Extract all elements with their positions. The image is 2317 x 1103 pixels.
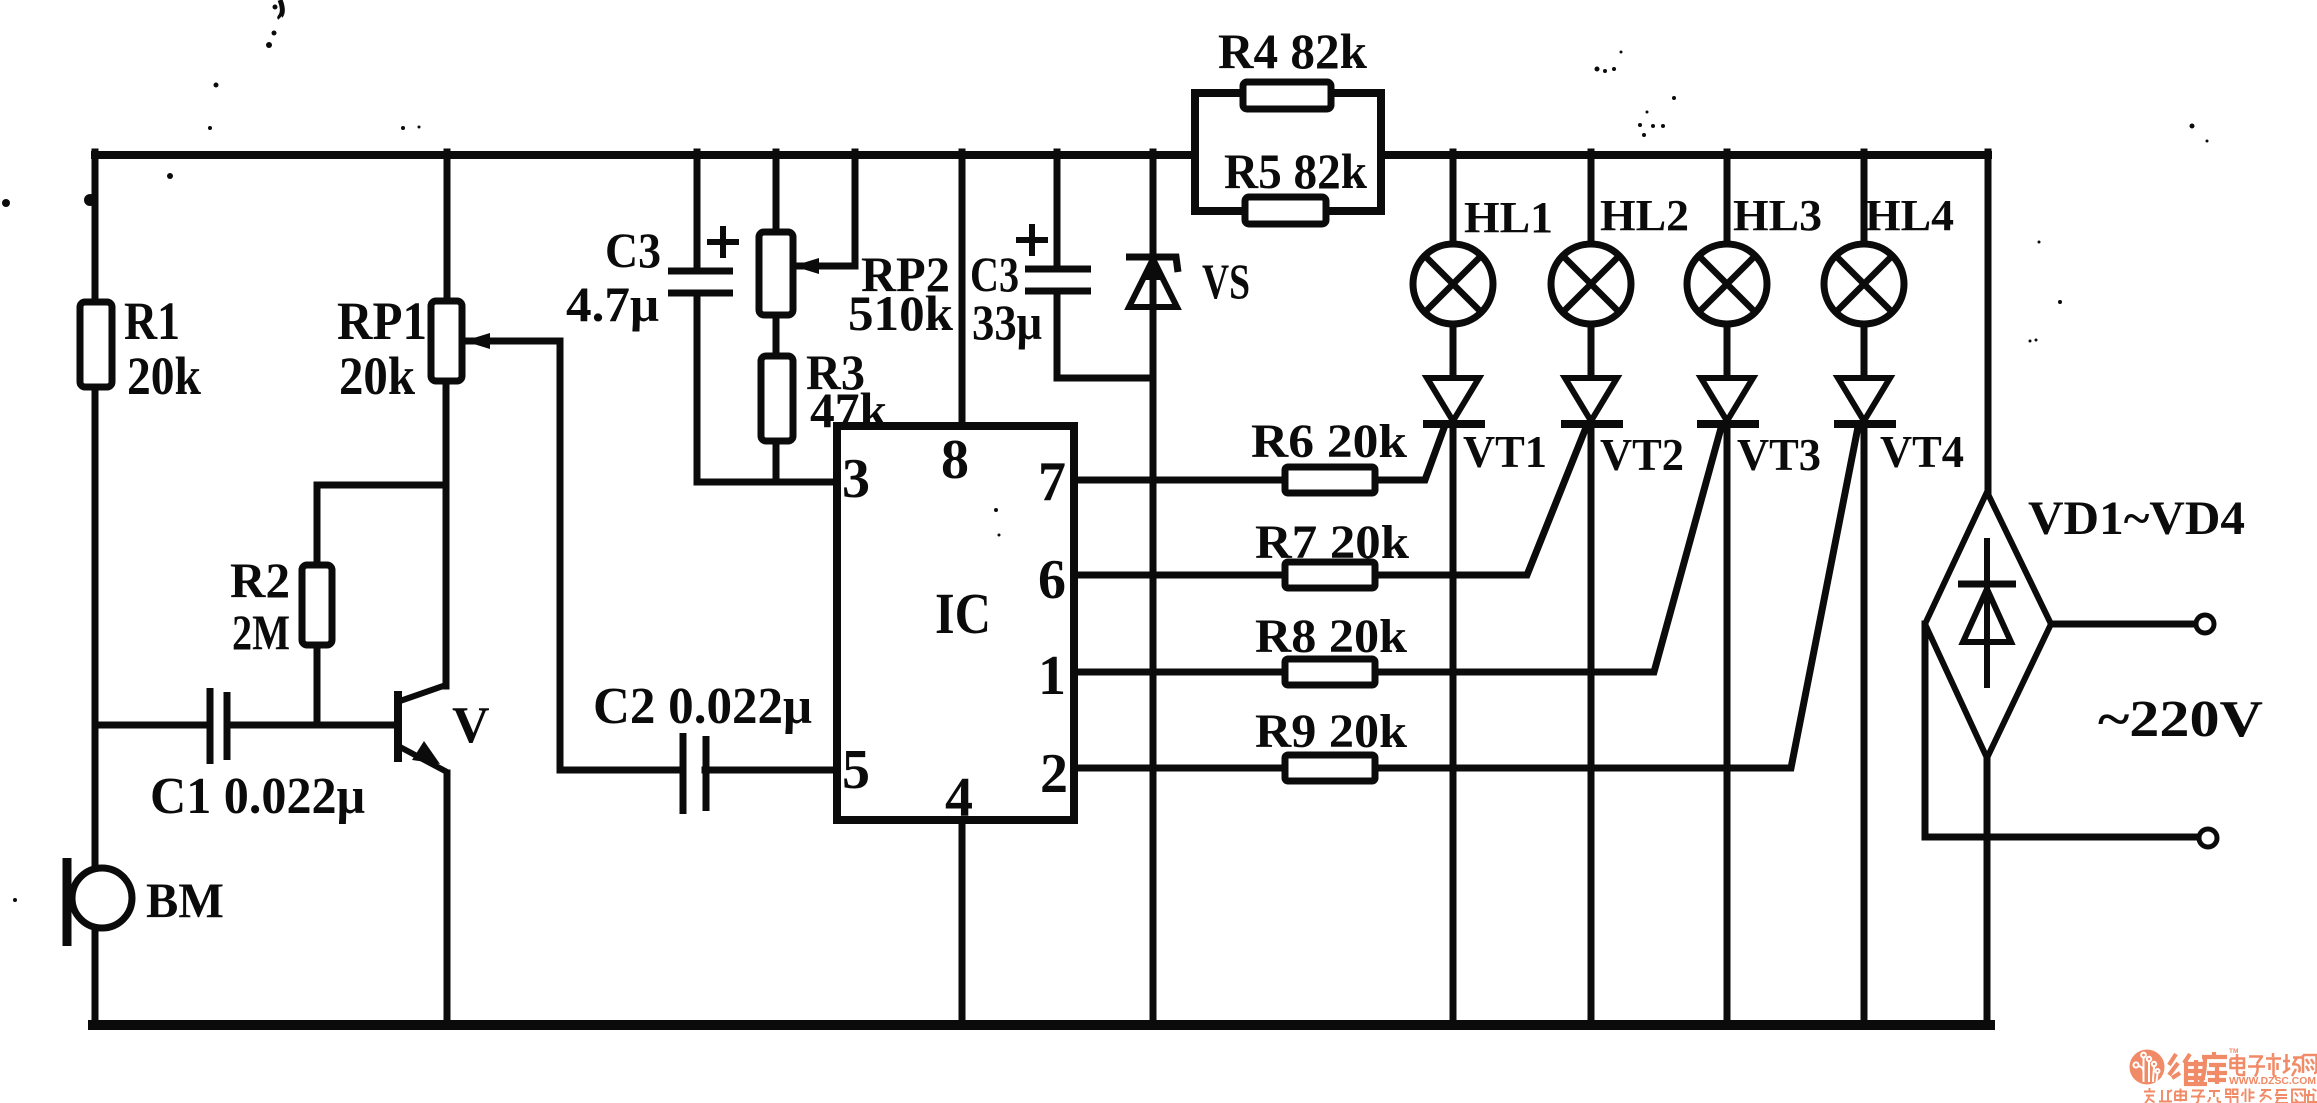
- wire lower AC lead to terminal: [1925, 834, 2199, 841]
- wire HL1 to VT1: [1450, 324, 1457, 376]
- wire VT1 cathode down: [1450, 424, 1457, 1022]
- watermark brand char ku: [2200, 1052, 2227, 1084]
- svg-text:TM: TM: [2229, 1048, 2238, 1055]
- wire RP1 wiper horizontal: [464, 338, 560, 345]
- wire BM bottom to bottom bus: [92, 928, 99, 1022]
- lamp HL1: [1413, 244, 1493, 324]
- wire RP2 to R3 link: [773, 315, 780, 356]
- thyristor VT1: [1423, 378, 1485, 424]
- svg-text:R4 82k: R4 82k: [1218, 23, 1367, 79]
- svg-text:HL1: HL1: [1464, 193, 1553, 242]
- wire IC pin 4 drop: [959, 820, 966, 1022]
- scan speck marks: [2, 0, 2209, 902]
- svg-text:3: 3: [842, 448, 870, 510]
- watermark char shi: [2266, 1053, 2281, 1077]
- wire HL2 to VT2: [1588, 324, 1595, 376]
- svg-text:R7 20k: R7 20k: [1255, 516, 1409, 569]
- svg-text:IC: IC: [935, 581, 991, 646]
- wire RP1 top feed: [444, 152, 451, 302]
- svg-text:R2: R2: [230, 552, 290, 608]
- svg-text:WWW.DZSC.COM: WWW.DZSC.COM: [2229, 1076, 2316, 1087]
- svg-text:R5 82k: R5 82k: [1224, 143, 1367, 199]
- plus sign C3a: [707, 226, 739, 258]
- watermark char dian: [2231, 1054, 2245, 1075]
- watermark char chang: [2283, 1054, 2302, 1076]
- capacitor C3b plates (33u): [1025, 269, 1091, 291]
- bridge rectifier VD1-VD4 diamond: [1925, 492, 2051, 758]
- AC terminal upper: [2196, 615, 2214, 633]
- wire IC pin 6 to R7: [1074, 572, 1285, 579]
- wire IC pin 1 to R8: [1074, 669, 1285, 676]
- wire bridge left vertex down: [1922, 624, 1929, 837]
- watermark slogan chars: [2144, 1088, 2317, 1103]
- wire C2 left horizontal: [560, 767, 682, 774]
- plus sign C3b: [1016, 224, 1048, 256]
- wire C3b bottom vertical: [1054, 291, 1061, 378]
- wire R9 to VT4 gate: [1375, 427, 1858, 768]
- watermark logo circle: [2130, 1050, 2165, 1085]
- wire C1 left (rail to C1): [95, 722, 210, 729]
- lamp HL4: [1824, 244, 1904, 324]
- svg-text:2M: 2M: [232, 604, 290, 660]
- resistor R1: [80, 302, 112, 387]
- capacitor C3a plates (4.7u): [668, 271, 733, 293]
- svg-text:~220V: ~220V: [2098, 691, 2263, 748]
- svg-text:6: 6: [1038, 549, 1066, 611]
- wire R2 top horizontal to collector line: [317, 482, 446, 489]
- wire R2 top vertical: [314, 485, 321, 565]
- R4/R5 parallel box frame: [1195, 93, 1381, 211]
- svg-text:33μ: 33μ: [972, 294, 1042, 350]
- bridge inner diode: [1958, 538, 2016, 688]
- svg-text:VT2: VT2: [1600, 429, 1684, 480]
- lamp HL3: [1687, 244, 1767, 324]
- svg-text:R1: R1: [124, 291, 180, 351]
- svg-text:4: 4: [945, 767, 973, 829]
- wire HL4 column top: [1861, 152, 1868, 244]
- svg-text:2: 2: [1040, 743, 1068, 805]
- wire HL2 column top: [1588, 152, 1595, 244]
- thyristor VT3: [1697, 378, 1759, 424]
- svg-text:VT3: VT3: [1737, 429, 1821, 480]
- svg-text:V: V: [452, 697, 490, 754]
- svg-text:47k: 47k: [810, 382, 887, 438]
- resistor R6 body: [1285, 467, 1375, 493]
- wire HL3 to VT3: [1724, 324, 1731, 376]
- wire node row to IC pin 3: [697, 479, 837, 486]
- RP2 wiper arrowhead: [793, 258, 819, 274]
- resistor R7 body: [1285, 562, 1375, 588]
- svg-text:VD1~VD4: VD1~VD4: [2028, 492, 2245, 545]
- wire C1 to transistor base: [227, 722, 398, 729]
- wire emitter vertical to bottom bus: [444, 773, 451, 1022]
- potentiometer RP1 body: [431, 301, 462, 381]
- IC box U1: [837, 426, 1074, 820]
- svg-text:VS: VS: [1202, 253, 1250, 309]
- wire C3a bottom vertical: [694, 293, 701, 482]
- watermark char zi: [2248, 1057, 2265, 1077]
- capacitor C2 plates: [683, 733, 706, 814]
- zener diode VS: [1126, 257, 1178, 307]
- svg-text:8: 8: [941, 429, 969, 491]
- svg-text:R8 20k: R8 20k: [1255, 610, 1407, 663]
- wire HL4 to VT4: [1861, 324, 1868, 376]
- svg-text:VT1: VT1: [1463, 426, 1547, 477]
- lamp HL2: [1551, 244, 1631, 324]
- resistor R4 body: [1243, 82, 1331, 109]
- AC terminal lower: [2199, 829, 2217, 847]
- wire VS rail vertical: [1150, 152, 1157, 1022]
- wire top bus left segment: [95, 151, 1195, 159]
- wire top bus right segment: [1381, 151, 1988, 159]
- svg-text:510k: 510k: [848, 285, 953, 341]
- wire IC pin 2 to R9: [1074, 765, 1285, 772]
- svg-text:HL2: HL2: [1600, 191, 1689, 240]
- microphone BM: [67, 858, 132, 946]
- wire HL1 column top: [1450, 152, 1457, 244]
- transistor V emitter arrowhead: [412, 741, 440, 764]
- svg-text:7: 7: [1038, 451, 1066, 513]
- wire VT4 cathode down: [1861, 424, 1868, 1022]
- wire RP2 wiper riser to bus: [852, 152, 859, 266]
- thyristor VT2: [1561, 378, 1623, 424]
- wire VT3 cathode down: [1724, 424, 1731, 1022]
- watermark char wang: [2303, 1055, 2317, 1073]
- wire RP1 wiper to C2 (vertical): [557, 341, 564, 770]
- wire R7 to VT2 gate: [1375, 430, 1585, 575]
- wire C3a top feed: [694, 152, 701, 271]
- svg-text:HL3: HL3: [1733, 191, 1822, 240]
- wire RP1 bottom / collector vertical: [443, 381, 450, 686]
- wire IC pin 7 to R6: [1074, 477, 1285, 484]
- wire left vertical rail: [92, 152, 99, 868]
- svg-text:RP1: RP1: [337, 291, 427, 351]
- capacitor C1 plates: [210, 688, 227, 764]
- wire C3b top feed: [1054, 152, 1061, 269]
- RP1 wiper arrowhead: [464, 333, 490, 349]
- wire HL3 column top: [1724, 152, 1731, 244]
- transistor V: [398, 685, 447, 772]
- wire bridge bottom drop: [1984, 758, 1991, 1022]
- zener VS arrow tip: [1141, 256, 1165, 280]
- wire bottom bus: [93, 1020, 1990, 1030]
- wire RP2 top feed: [773, 152, 780, 232]
- wire R3 bottom vertical: [773, 441, 780, 482]
- svg-text:5: 5: [842, 739, 870, 801]
- resistor R3: [761, 356, 793, 441]
- svg-text:C1 0.022μ: C1 0.022μ: [150, 768, 365, 825]
- wire C3b bottom to VS rail: [1057, 375, 1153, 382]
- svg-text:R6 20k: R6 20k: [1251, 415, 1407, 468]
- svg-text:C2 0.022μ: C2 0.022μ: [593, 678, 812, 735]
- svg-text:R9 20k: R9 20k: [1255, 705, 1407, 758]
- thyristor VT4: [1834, 378, 1896, 424]
- wire RP2 wiper horizontal: [793, 263, 855, 270]
- svg-text:HL4: HL4: [1865, 191, 1954, 240]
- svg-text:1: 1: [1038, 645, 1066, 707]
- svg-text:BM: BM: [146, 872, 224, 928]
- wire IC pin 8 riser: [959, 152, 966, 426]
- svg-text:C3: C3: [605, 222, 661, 278]
- potentiometer RP2 body: [759, 232, 793, 315]
- wire bridge right vertex to terminal: [2051, 621, 2196, 628]
- wire R2 bottom vertical: [314, 645, 321, 725]
- wire bus corner to bridge top: [1985, 152, 1992, 492]
- wire C2 right to IC pin 5: [705, 767, 837, 774]
- resistor R5 body: [1245, 197, 1326, 224]
- resistor R9 body: [1285, 755, 1375, 781]
- wire R8 to VT3 gate: [1375, 428, 1721, 672]
- svg-text:VT4: VT4: [1880, 426, 1964, 477]
- watermark brand char wei: [2169, 1054, 2207, 1084]
- wire VT2 cathode down: [1588, 424, 1595, 1022]
- svg-text:20k: 20k: [127, 346, 201, 406]
- wire R6 to VT1 gate: [1375, 428, 1444, 480]
- svg-text:4.7μ: 4.7μ: [566, 276, 659, 332]
- svg-text:20k: 20k: [339, 346, 415, 406]
- resistor R8 body: [1285, 659, 1375, 685]
- resistor R2: [302, 565, 332, 645]
